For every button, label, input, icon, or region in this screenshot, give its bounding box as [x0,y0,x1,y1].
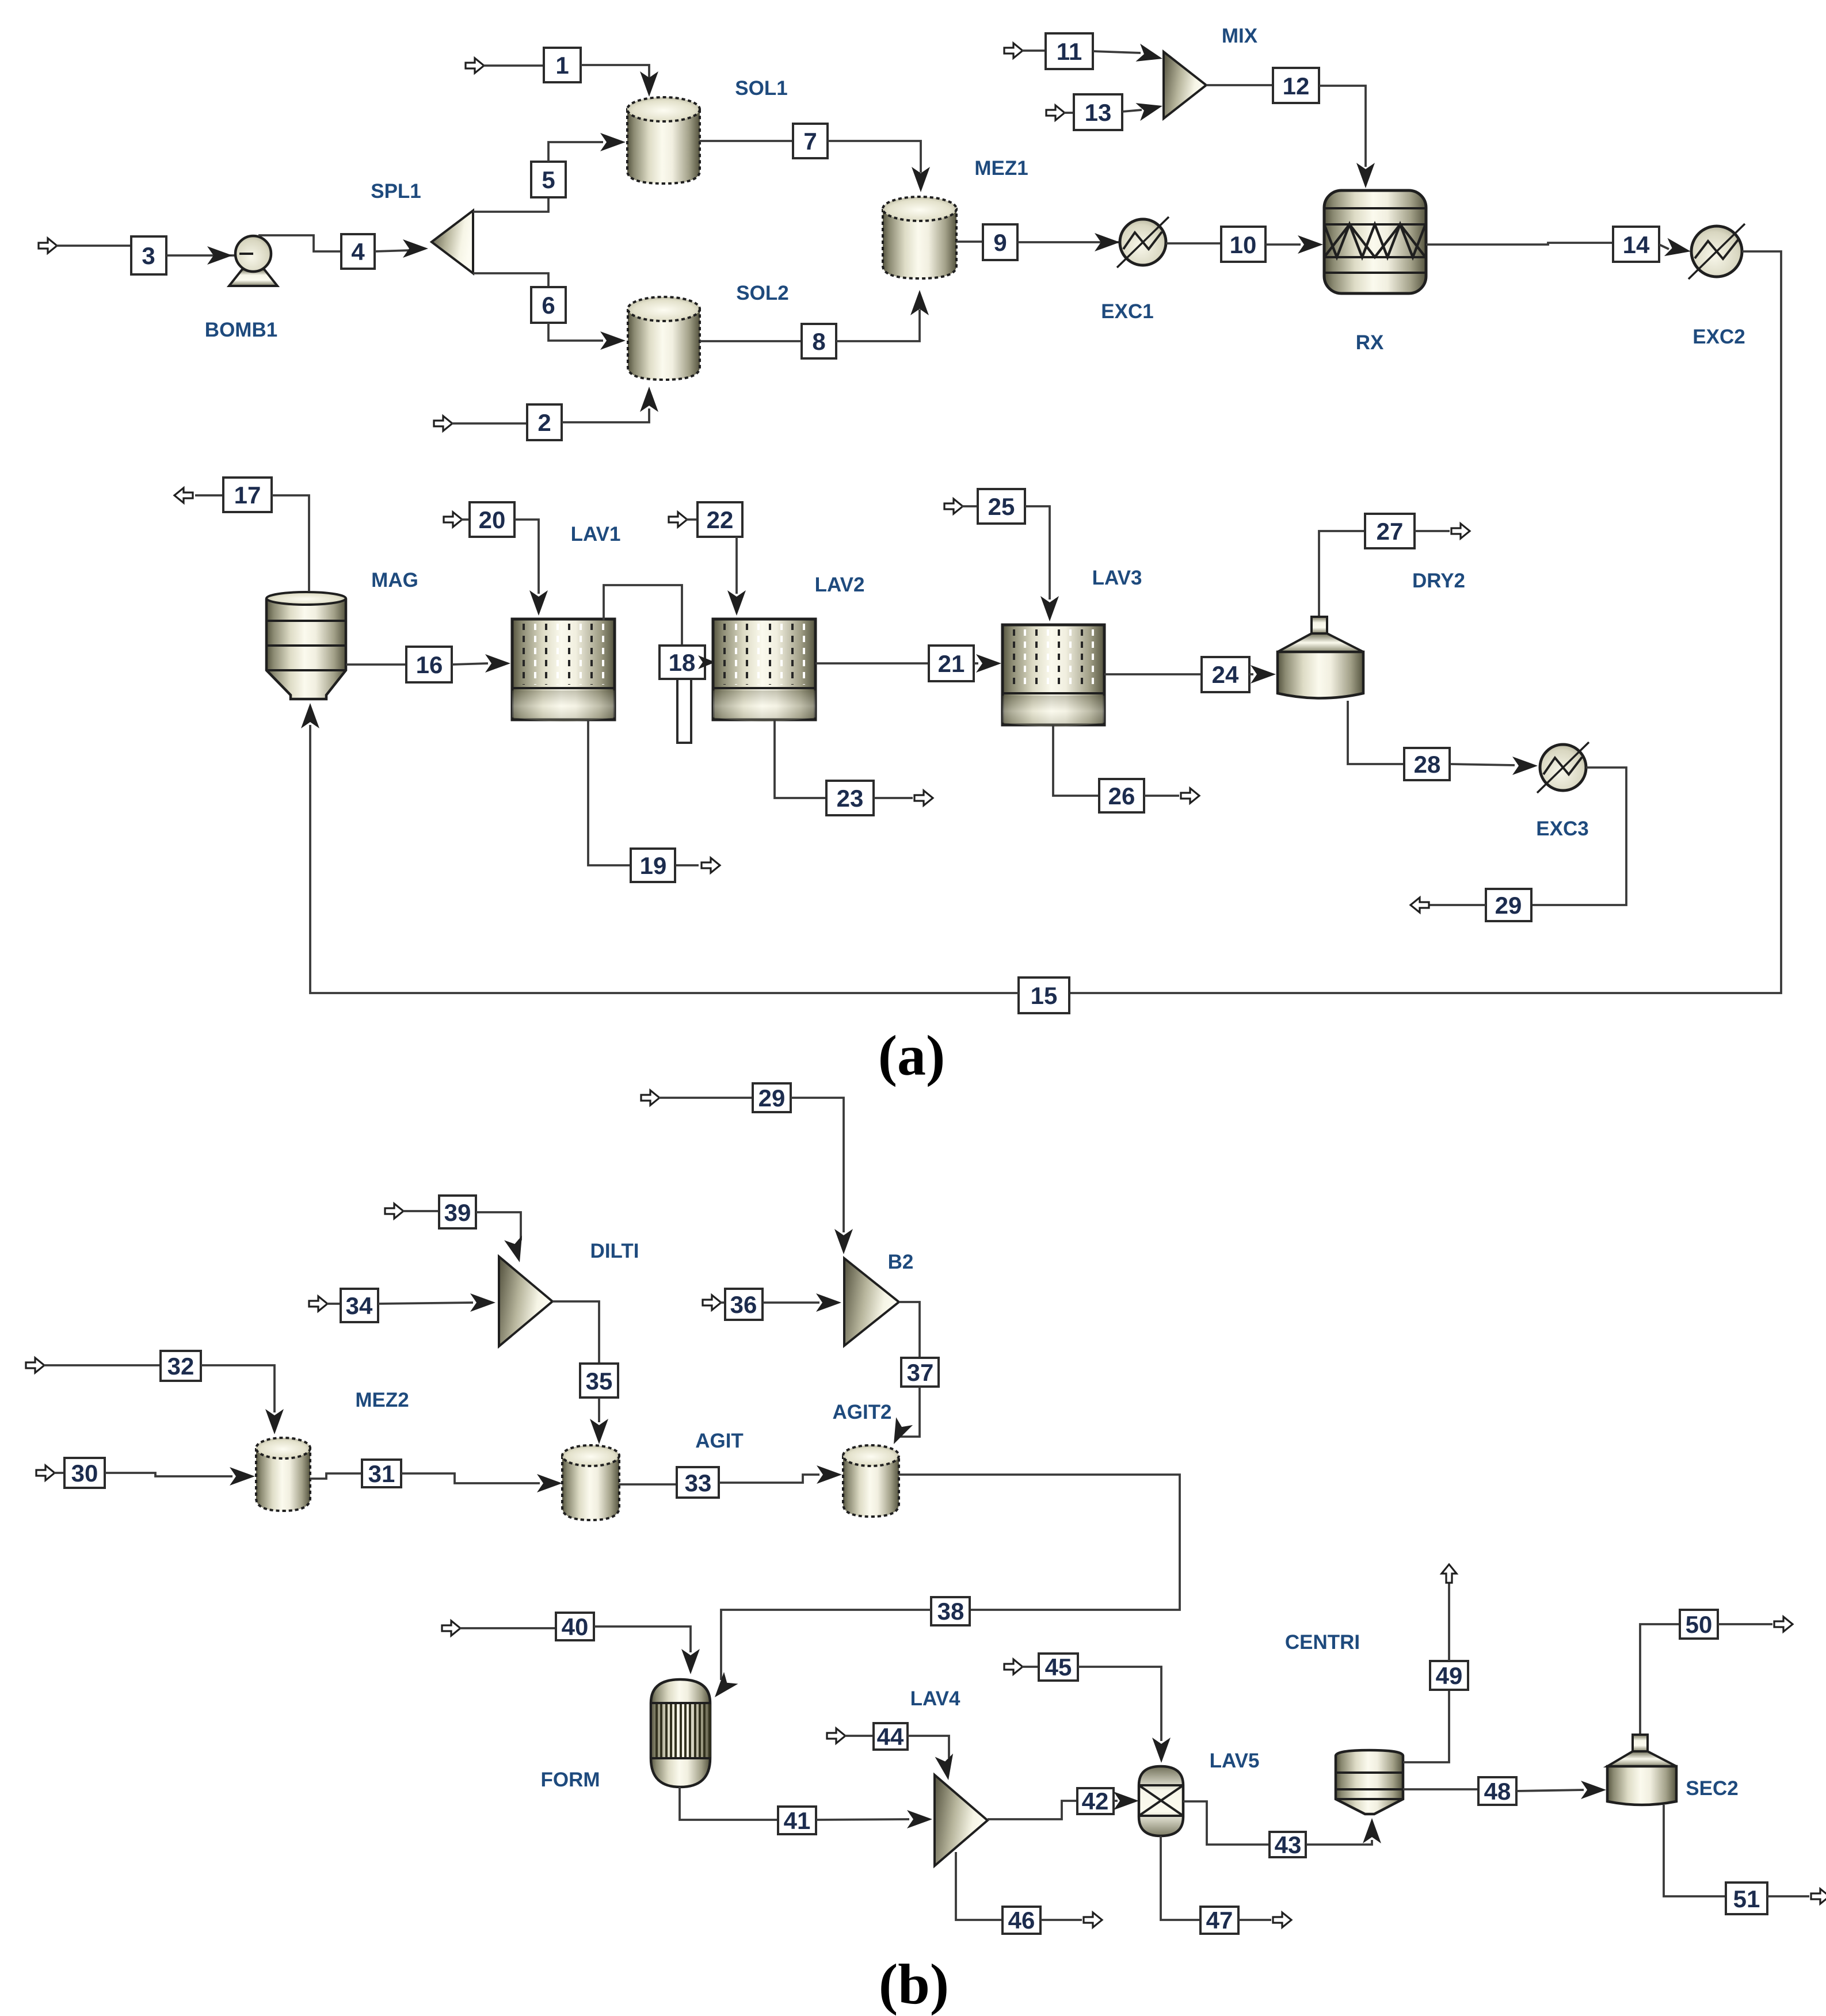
wire stream 38 to FORM [721,1610,931,1680]
input arrow stream 29b [641,1090,660,1105]
svg-text:22: 22 [707,506,734,533]
wire stream 20 to LAV1 [514,520,539,594]
svg-text:28: 28 [1414,751,1441,778]
wire stream 10 to RX [1265,243,1301,246]
wire stream 2 to SOL2 [562,408,649,422]
wire stream 35 to AGIT [598,1398,600,1422]
arrowhead into DILTI left [470,1293,495,1312]
svg-text:EXC1: EXC1 [1101,300,1153,323]
svg-text:AGIT2: AGIT2 [832,1401,891,1423]
wire stream 20 feed [461,518,470,521]
arrowhead into DILTI top [504,1235,528,1265]
arrowhead into EXC2 [1664,238,1692,261]
svg-text:LAV2: LAV2 [815,574,865,596]
arrowhead into LAV5 left [1114,1792,1139,1810]
stream label box 49 [1430,1661,1468,1690]
tank MEZ1 [883,197,956,278]
arrowhead into LAV3 left [976,654,1001,673]
input arrow stream 13 [1046,105,1065,120]
wire stream 46 out [1040,1919,1082,1921]
stream label box 31 [362,1460,401,1487]
svg-text:45: 45 [1045,1654,1072,1681]
svg-text:21: 21 [938,650,965,677]
output arrow stream 29a [1411,898,1429,912]
wire stream 38 from AGIT2 [899,1475,1180,1610]
arrowhead into LAV5 top [1152,1738,1171,1763]
svg-text:38: 38 [937,1598,965,1625]
wire stream 29a out [1421,904,1486,906]
wire stream 51 from SEC2 [1664,1805,1726,1896]
arrowhead into MEZ1 bottom [910,290,929,315]
wire stream 4 from pump [258,235,341,251]
stream label box 46 [1002,1907,1040,1934]
wire stream 15 recycle right leg [1069,251,1781,993]
svg-text:40: 40 [562,1613,589,1640]
svg-text:3: 3 [142,242,155,269]
svg-text:SPL1: SPL1 [371,180,421,203]
stream label box 45 [1039,1654,1078,1681]
input arrow stream 2 [434,416,452,431]
heat exchanger EXC2 [1688,224,1745,279]
wire stream 27 from DRY2 [1319,531,1365,616]
svg-text:LAV5: LAV5 [1210,1750,1260,1772]
wire stream 21 to LAV3 [974,662,978,665]
input arrow stream 44 [827,1728,845,1743]
svg-text:36: 36 [730,1291,757,1318]
svg-text:CENTRI: CENTRI [1285,1631,1360,1654]
wire stream 26 out [1144,795,1179,797]
pump BOMB1 [229,236,277,286]
svg-text:4: 4 [351,238,365,265]
stream label box 23 [826,781,874,815]
arrowhead into SOL2 left [600,331,626,350]
stream label box 32 [161,1351,201,1381]
wash column LAV2 [713,619,815,721]
svg-text:2: 2 [537,409,551,436]
wire stream 16 to LAV1 [452,663,488,665]
arrowhead into MIX lower [1135,97,1164,121]
svg-text:15: 15 [1031,982,1058,1009]
stream label box 14 [1613,227,1659,262]
wire stream 40 feed [460,1627,556,1629]
arrowhead into LAV4 top [935,1754,958,1782]
input arrow stream 34 [309,1296,327,1311]
svg-text:14: 14 [1623,231,1650,258]
wire stream 22 to LAV2 [735,537,738,594]
stream label box 20 [470,502,514,537]
input arrow stream 22 [669,512,687,527]
wire stream 3 to pump [166,254,251,257]
wire stream 3 feed [56,245,131,247]
arrowhead into MEZ1 top [912,167,930,192]
arrowhead into AGIT2 left [817,1465,842,1484]
input arrow stream 25 [944,499,963,514]
stream label box 29a [1486,889,1531,921]
stream label box 30 [64,1458,105,1488]
former FORM [651,1679,710,1787]
svg-text:DILTI: DILTI [590,1240,639,1262]
stream label box 36 [725,1289,763,1320]
wire stream 49 riser [1448,1582,1450,1661]
wire stream 39 to DILTI [476,1212,521,1240]
stream label box 40 [556,1613,594,1640]
stream label box 24 [1202,657,1249,692]
svg-text:20: 20 [479,506,506,533]
arrowhead into AGIT2 top [885,1417,913,1448]
svg-text:26: 26 [1108,782,1135,810]
stream label box 38 [931,1597,970,1625]
stream label box 39 [439,1196,476,1228]
stream label box 4 [341,234,375,269]
stream label box 3 [131,236,166,274]
wire stream 45 to LAV5 [1078,1667,1161,1741]
wire stream 51 out [1767,1895,1809,1897]
svg-text:43: 43 [1275,1831,1302,1858]
svg-text:LAV4: LAV4 [910,1687,960,1710]
wire stream 8 from SOL2 [700,340,802,342]
wire stream 4 to SPL1 [375,250,411,251]
stream label box 28 [1404,748,1450,780]
dryer DRY2 [1278,617,1363,698]
stream label box 1 [544,48,581,82]
input arrow stream 40 [442,1621,460,1636]
arrowhead into SOL2 bottom [640,387,658,412]
output arrow stream 19 [702,858,720,873]
output arrow stream 51 [1811,1889,1826,1904]
wire stream 43 from LAV5 [1183,1801,1270,1845]
svg-text:MEZ1: MEZ1 [974,157,1028,180]
stream label box 43 [1270,1831,1306,1858]
stream label box 27 [1365,514,1415,548]
wire stream 13 to MIX [1122,110,1142,112]
svg-text:SOL2: SOL2 [736,282,788,304]
arrowhead into BOMB1 [207,246,232,265]
wire stream 13 feed [1064,112,1074,114]
centrifuge CENTRI [1336,1750,1403,1814]
output arrow stream 26 [1181,788,1199,803]
input arrow stream 30 [36,1465,55,1480]
svg-text:13: 13 [1085,99,1112,126]
wire stream 47 out [1238,1919,1271,1921]
stream label box 50 [1680,1610,1718,1639]
wire stream 26 from LAV3 [1053,725,1099,796]
svg-text:AGIT: AGIT [695,1430,744,1452]
input arrow stream 1 [466,58,484,73]
wire stream 33 from AGIT [619,1483,677,1486]
svg-text:42: 42 [1082,1788,1109,1815]
wire stream 50 from SEC2 [1640,1624,1680,1734]
stream label box 16 [406,647,452,682]
output arrow stream 49 [1442,1564,1457,1583]
mixer DILTI [499,1257,552,1346]
wire stream 19 from LAV1 [588,720,631,865]
wire stream 24 to DRY2 [1249,673,1253,675]
svg-text:30: 30 [71,1460,98,1487]
wire stream 14 from RX [1426,243,1613,245]
svg-text:46: 46 [1008,1907,1035,1934]
svg-text:50: 50 [1686,1611,1713,1638]
wire stream 25 feed [962,505,978,507]
svg-text:EXC2: EXC2 [1692,326,1745,348]
wire stream 30 feed [54,1472,64,1474]
splitter SPL1 [432,211,473,273]
svg-text:48: 48 [1484,1778,1511,1805]
tank SOL1 [627,97,700,184]
wire stream 6 from SPL1 [473,273,548,287]
stream label box 7 [793,124,828,158]
heat exchanger EXC3 [1537,742,1589,793]
stream label box 37 [901,1358,939,1387]
arrowhead into B2 top [834,1229,853,1254]
wire stream 46 from LAV4 [956,1852,1002,1920]
wire stream 37 from B2 [899,1302,920,1358]
wire stream 31 to AGIT [401,1473,540,1483]
arrowhead into MEZ2 top [265,1409,284,1434]
wire stream 33 to AGIT2 [719,1475,819,1483]
arrowhead into LAV1 top [529,590,548,616]
arrowhead into LAV1 left [485,654,510,673]
output arrow stream 17 [174,488,193,503]
stream label box 35 [580,1364,618,1398]
wire stream 23 out [874,797,913,799]
arrowhead into EXC1 [1095,233,1120,251]
wire stream 41 to LAV4 [816,1819,909,1820]
svg-text:29: 29 [1495,892,1522,919]
wire stream 40 to FORM [594,1626,691,1652]
svg-text:24: 24 [1212,661,1239,688]
stream label box 41 [778,1807,816,1834]
stream label box 8 [802,324,836,358]
arrowhead into FORM top [681,1649,700,1674]
wire stream 23 from LAV2 [775,720,826,798]
separator MAG [266,592,346,699]
separator SEC2 [1607,1735,1676,1805]
stream label box 48 [1478,1777,1516,1805]
stream label box 9 [983,224,1017,260]
svg-text:7: 7 [803,128,817,155]
arrowhead into FORM top right [708,1672,738,1703]
svg-text:16: 16 [416,651,443,678]
wire stream 42 to LAV5 [1114,1800,1118,1802]
arrowhead stream 18 into LAV2 [698,655,715,669]
svg-text:32: 32 [167,1353,195,1380]
wire stream 1 to SOL1 [581,65,649,86]
svg-text:47: 47 [1206,1907,1233,1934]
svg-text:(b): (b) [879,1952,949,2016]
arrowhead into LAV3 top [1040,596,1059,621]
wire stream 9 to EXC1 [1017,241,1119,243]
stream label box 15 [1019,978,1069,1013]
input arrow stream 45 [1004,1659,1023,1674]
wire stream 11 to MIX [1093,51,1141,53]
wire stream 48 from CENTRI [1403,1788,1478,1790]
wire stream 8 to MEZ1 [836,310,920,341]
wire stream 10 from EXC1 [1166,242,1221,245]
output arrow stream 23 [914,791,933,805]
wire stream 17 from MAG [195,494,223,497]
wire stream 28 from DRY2 [1348,701,1405,764]
arrowhead into SOL1 top [640,71,658,97]
wire stream 31 from MEZ2 [310,1473,362,1479]
svg-text:51: 51 [1733,1885,1760,1912]
stream label box 25 [978,489,1025,524]
arrowhead into SPL1 apex [403,239,428,258]
wire stream 18 from LAV1 top [604,585,682,646]
wire stream 47 from LAV5 [1161,1836,1200,1920]
svg-text:12: 12 [1283,72,1310,100]
stream label box 51 [1726,1883,1767,1914]
mixer B2 [844,1258,899,1346]
arrowhead into EXC3 [1512,757,1538,775]
wire stream 37 to AGIT2 [898,1387,920,1437]
svg-text:RX: RX [1356,331,1384,354]
wire stream 15 recycle left leg [310,725,1019,993]
svg-text:49: 49 [1436,1662,1463,1689]
wire stream 32 to MEZ2 [201,1365,275,1412]
wire stream 12 to RX [1319,86,1366,167]
svg-text:37: 37 [907,1359,934,1386]
wire stream 14 to EXC2 [1659,245,1669,249]
svg-text:LAV3: LAV3 [1092,567,1142,589]
svg-text:41: 41 [784,1807,811,1834]
output arrow stream 27 [1451,524,1470,539]
stream label box 13 [1074,94,1122,130]
wire stream 48 to SEC2 [1516,1790,1584,1791]
svg-text:8: 8 [812,328,825,355]
output arrow stream 46 [1084,1912,1102,1927]
wire stream 12 from MIX [1206,84,1273,86]
svg-text:(a): (a) [878,1024,946,1087]
input arrow stream 32 [26,1358,44,1373]
wire stream 16 from MAG [346,663,406,666]
arrowhead into SOL1 left [600,133,626,151]
arrowhead into LAV2 top [727,590,746,616]
svg-text:11: 11 [1057,38,1082,65]
wire stream 29b to B2 [791,1098,844,1232]
wire stream 5 to SOL1 [548,142,603,162]
svg-text:SOL1: SOL1 [735,77,787,100]
wire stream 2 feed [452,422,527,425]
stream label box 5 [531,162,566,197]
wire stream 39 feed [403,1210,439,1212]
svg-text:BOMB1: BOMB1 [205,319,277,341]
arrowhead into MAG bottom [301,703,319,728]
wire stream 44 feed [845,1735,874,1737]
svg-text:SEC2: SEC2 [1686,1777,1738,1800]
wire stream 44 to LAV4 [908,1736,949,1758]
stream label box 12 [1273,68,1319,103]
input arrow stream 20 [444,512,462,527]
input arrow stream 3 [39,238,57,253]
tank MEZ2 [256,1438,310,1511]
svg-text:EXC3: EXC3 [1536,818,1588,840]
mixer LAV4 [935,1775,988,1866]
arrowhead into DRY2 left [1251,665,1276,684]
wire stream 27 out [1415,530,1450,532]
mixer MIX [1164,52,1206,119]
wire stream 22 feed [686,518,697,521]
svg-text:5: 5 [542,166,555,193]
wire stream 34 feed [327,1303,341,1305]
svg-text:FORM: FORM [540,1769,600,1791]
wire stream 35 from DILTI [552,1301,599,1364]
svg-text:35: 35 [586,1368,613,1395]
input arrow stream 11 [1004,43,1023,58]
wire stream 19 out [676,864,699,866]
svg-text:18: 18 [669,649,696,676]
svg-text:10: 10 [1230,231,1257,258]
stream label box 11 [1046,33,1093,69]
wire stream 1 feed [483,64,544,67]
wire stream 49 from CENTRI [1403,1690,1449,1762]
stream label box 2 [527,404,562,440]
arrowhead into RX left [1298,235,1323,254]
svg-text:29: 29 [758,1085,786,1112]
stream 18 standpipe [677,679,691,743]
wire stream 34 to DILTI [378,1303,473,1304]
wire stream 6 to SOL2 [548,323,603,341]
wire stream 5 from SPL1 [473,197,548,212]
stream label box 19 [631,849,675,882]
tank AGIT2 [843,1445,899,1517]
tank AGIT [562,1445,619,1520]
wire stream 30 to MEZ2 [105,1473,232,1476]
wire stream 29a from EXC3 [1531,768,1626,905]
arrowhead into AGIT left [537,1474,562,1492]
svg-text:23: 23 [837,785,864,812]
arrowhead into LAV4 left [907,1810,932,1828]
wire stream 42 from LAV4 [988,1801,1077,1819]
wire stream 41 from FORM [680,1787,778,1820]
tank SOL2 [628,297,700,380]
svg-text:MEZ2: MEZ2 [355,1389,409,1411]
arrowhead into SEC2 left [1581,1781,1606,1799]
svg-text:31: 31 [368,1460,395,1487]
wire stream 29b feed [659,1097,753,1099]
output arrow stream 50 [1774,1617,1793,1632]
svg-text:25: 25 [988,493,1015,520]
wire stream 9 from MEZ1 [956,240,983,243]
svg-text:MIX: MIX [1222,25,1258,47]
svg-text:LAV1: LAV1 [571,523,621,545]
svg-text:DRY2: DRY2 [1412,570,1465,592]
stream label box 44 [874,1723,908,1750]
wash column LAV1 [512,619,615,721]
stream label box 34 [341,1289,378,1322]
stream label box 6 [531,287,566,323]
wire stream 28 to EXC3 [1450,764,1515,765]
svg-text:B2: B2 [888,1251,914,1273]
reactor RX [1324,190,1426,293]
svg-text:44: 44 [877,1723,904,1750]
svg-text:33: 33 [685,1469,712,1496]
stream label box 29b [753,1083,791,1112]
wire stream 24 from LAV3 [1104,673,1201,675]
wire stream 7 from SOL1 [700,140,793,142]
stream label box 18 [660,646,705,679]
stream label box 47 [1200,1907,1238,1934]
wire stream 25 to LAV3 [1025,506,1050,600]
stream label box 22 [697,502,742,537]
svg-text:6: 6 [542,292,555,319]
input arrow stream 36 [703,1295,721,1310]
wire stream 36 feed [720,1301,725,1304]
svg-text:34: 34 [346,1292,373,1319]
arrowhead into MIX upper [1135,44,1164,68]
arrowhead into CENTRI bottom [1363,1818,1381,1843]
svg-text:39: 39 [444,1199,471,1226]
output arrow stream 47 [1273,1912,1291,1927]
